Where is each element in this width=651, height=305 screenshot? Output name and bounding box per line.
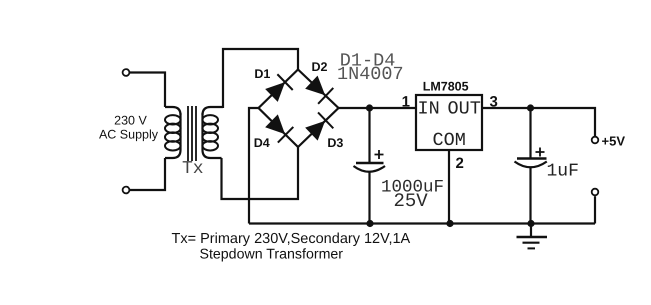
svg-text:IN: IN: [418, 99, 440, 120]
svg-text:OUT: OUT: [448, 99, 481, 120]
svg-text:2: 2: [456, 155, 464, 172]
svg-text:LM7805: LM7805: [423, 80, 469, 94]
svg-text:25V: 25V: [394, 190, 429, 212]
svg-text:AC Supply: AC Supply: [99, 128, 159, 142]
svg-text:3: 3: [490, 94, 498, 111]
svg-text:1uF: 1uF: [547, 162, 579, 182]
svg-text:COM: COM: [433, 130, 466, 151]
svg-text:D3: D3: [327, 136, 343, 150]
svg-text:D2: D2: [312, 60, 328, 74]
svg-text:Tx= Primary 230V,Secondary 12V: Tx= Primary 230V,Secondary 12V,1A: [172, 231, 411, 247]
svg-text:D4: D4: [254, 136, 270, 150]
svg-text:Tx: Tx: [182, 159, 204, 179]
svg-text:Stepdown Transformer: Stepdown Transformer: [200, 247, 344, 263]
svg-text:230 V: 230 V: [114, 113, 147, 127]
svg-text:D1: D1: [254, 67, 270, 81]
svg-text:1: 1: [402, 94, 410, 111]
svg-text:1N4007: 1N4007: [337, 64, 404, 85]
svg-text:+5V: +5V: [602, 134, 626, 149]
